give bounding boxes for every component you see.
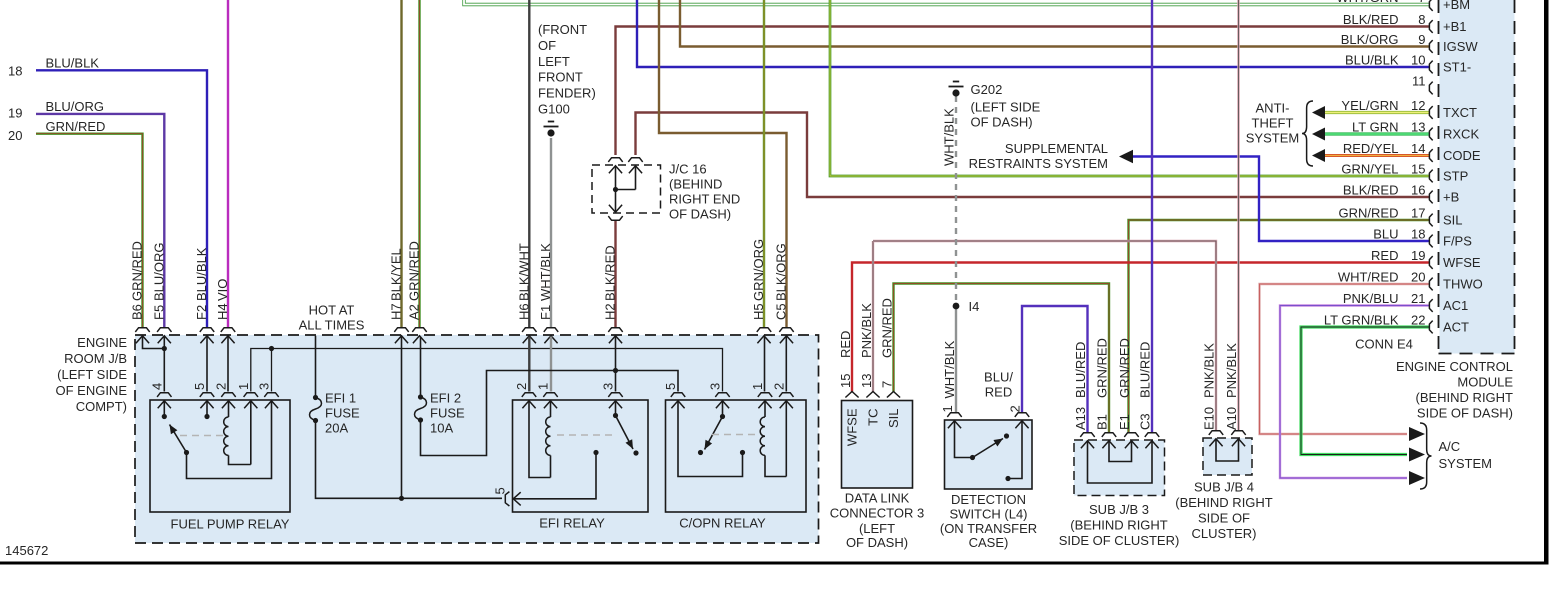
svg-text:RED: RED (1371, 248, 1398, 263)
svg-text:GRN/RED: GRN/RED (46, 119, 106, 134)
svg-text:16: 16 (1411, 183, 1425, 198)
svg-text:ENGINE: ENGINE (77, 335, 127, 350)
svg-text:BLK/RED: BLK/RED (1343, 183, 1399, 198)
svg-text:BLK/RED: BLK/RED (1343, 12, 1399, 27)
svg-text:OF DASH): OF DASH) (846, 535, 908, 550)
svg-text:I4: I4 (969, 299, 980, 314)
svg-text:+B1: +B1 (1443, 19, 1467, 34)
svg-text:11: 11 (1412, 74, 1426, 89)
svg-text:G100: G100 (538, 102, 570, 117)
svg-text:2: 2 (1008, 405, 1023, 412)
svg-text:COMPT): COMPT) (76, 399, 127, 414)
svg-text:SIDE OF DASH): SIDE OF DASH) (1417, 406, 1513, 421)
svg-text:E1: E1 (1117, 414, 1132, 430)
svg-text:ROOM J/B: ROOM J/B (64, 351, 127, 366)
svg-text:GRN/RED: GRN/RED (407, 241, 422, 301)
svg-text:A13: A13 (1073, 407, 1088, 430)
svg-text:2: 2 (514, 383, 529, 390)
svg-text:1: 1 (750, 383, 765, 390)
svg-text:17: 17 (1411, 206, 1425, 221)
svg-text:BLU/: BLU/ (984, 370, 1013, 385)
svg-text:GRN/RED: GRN/RED (1095, 338, 1110, 398)
svg-text:1: 1 (236, 383, 251, 390)
svg-text:(LEFT SIDE: (LEFT SIDE (971, 100, 1041, 115)
svg-text:FRONT: FRONT (538, 70, 583, 85)
svg-text:BLK/ORG: BLK/ORG (774, 243, 789, 301)
svg-text:G202: G202 (971, 82, 1003, 97)
svg-text:LEFT: LEFT (538, 54, 570, 69)
svg-text:(BEHIND RIGHT: (BEHIND RIGHT (1175, 495, 1273, 510)
svg-text:TXCT: TXCT (1443, 105, 1477, 120)
svg-text:ANTI-: ANTI- (1256, 101, 1290, 116)
svg-text:STP: STP (1443, 169, 1468, 184)
svg-text:7: 7 (880, 381, 895, 388)
svg-text:9: 9 (1418, 32, 1425, 47)
svg-text:RXCK: RXCK (1443, 127, 1479, 142)
svg-text:15: 15 (1411, 162, 1425, 177)
svg-text:RED/YEL: RED/YEL (1343, 141, 1399, 156)
svg-text:F/PS: F/PS (1443, 234, 1472, 249)
svg-text:CLUSTER): CLUSTER) (1191, 526, 1256, 541)
svg-text:WFSE: WFSE (845, 408, 860, 446)
svg-text:OF DASH): OF DASH) (971, 115, 1033, 130)
svg-text:RIGHT END: RIGHT END (669, 192, 740, 207)
svg-text:PNK/BLK: PNK/BLK (1202, 343, 1217, 398)
svg-text:GRN/RED: GRN/RED (1339, 206, 1399, 221)
svg-text:22: 22 (1411, 313, 1425, 328)
svg-text:THWO: THWO (1443, 277, 1483, 292)
svg-text:ENGINE CONTROL: ENGINE CONTROL (1396, 359, 1513, 374)
svg-text:TC: TC (866, 409, 881, 426)
svg-text:+B: +B (1443, 190, 1459, 205)
svg-text:C5: C5 (774, 303, 789, 320)
svg-text:OF: OF (538, 38, 556, 53)
svg-text:SIDE OF CLUSTER): SIDE OF CLUSTER) (1059, 533, 1180, 548)
svg-text:J/C 16: J/C 16 (669, 162, 707, 177)
svg-text:19: 19 (1411, 248, 1425, 263)
svg-text:GRN/ORG: GRN/ORG (751, 239, 766, 301)
svg-text:EFI 2: EFI 2 (430, 391, 461, 406)
svg-text:THEFT: THEFT (1252, 116, 1294, 131)
svg-text:BLU/BLK: BLU/BLK (46, 56, 100, 71)
svg-text:13: 13 (1411, 120, 1425, 135)
svg-text:PNK/BLK: PNK/BLK (1224, 343, 1239, 398)
svg-text:145672: 145672 (5, 543, 48, 558)
svg-text:BLK/ORG: BLK/ORG (1341, 32, 1399, 47)
svg-text:12: 12 (1411, 98, 1425, 113)
svg-text:WHT/RED: WHT/RED (1338, 270, 1399, 285)
svg-text:FUSE: FUSE (325, 406, 360, 421)
svg-text:21: 21 (1411, 291, 1425, 306)
svg-text:ACT: ACT (1443, 320, 1469, 335)
svg-text:14: 14 (1411, 141, 1425, 156)
svg-text:AC1: AC1 (1443, 298, 1468, 313)
svg-text:(LEFT SIDE: (LEFT SIDE (57, 367, 127, 382)
svg-text:B1: B1 (1095, 414, 1110, 430)
svg-text:H5: H5 (751, 303, 766, 320)
svg-text:B6: B6 (130, 304, 145, 320)
svg-text:18: 18 (1411, 227, 1425, 242)
svg-text:20A: 20A (325, 421, 348, 436)
svg-text:20: 20 (8, 128, 22, 143)
svg-text:2: 2 (214, 383, 229, 390)
svg-text:BLU/ORG: BLU/ORG (151, 242, 166, 301)
svg-text:C/OPN RELAY: C/OPN RELAY (679, 516, 766, 531)
svg-text:(BEHIND RIGHT: (BEHIND RIGHT (1070, 518, 1168, 533)
svg-text:H2: H2 (603, 303, 618, 320)
svg-text:SWITCH (L4): SWITCH (L4) (950, 507, 1028, 522)
svg-text:5: 5 (663, 383, 678, 390)
svg-text:H6: H6 (516, 303, 531, 320)
svg-text:HOT AT: HOT AT (309, 303, 355, 318)
svg-text:SUB J/B 3: SUB J/B 3 (1089, 502, 1149, 517)
svg-text:LT GRN/BLK: LT GRN/BLK (1324, 313, 1399, 328)
svg-text:19: 19 (8, 106, 22, 121)
svg-text:(ON TRANSFER: (ON TRANSFER (940, 521, 1037, 536)
svg-text:GRN/RED: GRN/RED (130, 241, 145, 301)
svg-text:EFI RELAY: EFI RELAY (539, 516, 605, 531)
svg-text:(BEHIND: (BEHIND (669, 177, 722, 192)
svg-text:(FRONT: (FRONT (538, 22, 587, 37)
svg-text:BLK/WHT: BLK/WHT (516, 243, 531, 301)
svg-text:F2: F2 (194, 305, 209, 320)
svg-text:SIDE OF: SIDE OF (1198, 511, 1250, 526)
svg-text:CONNECTOR 3: CONNECTOR 3 (830, 506, 924, 521)
svg-text:20: 20 (1411, 270, 1425, 285)
svg-text:BLU/ORG: BLU/ORG (46, 99, 105, 114)
svg-text:BLU/RED: BLU/RED (1073, 342, 1088, 398)
svg-text:MODULE: MODULE (1457, 375, 1513, 390)
svg-text:13: 13 (859, 374, 874, 388)
svg-text:CONN E4: CONN E4 (1355, 337, 1413, 352)
svg-text:BLU/BLK: BLU/BLK (1345, 53, 1399, 68)
svg-text:LT GRN: LT GRN (1352, 120, 1398, 135)
svg-text:WHT/BLK: WHT/BLK (942, 108, 957, 166)
svg-text:FUEL PUMP RELAY: FUEL PUMP RELAY (171, 517, 290, 532)
svg-text:C3: C3 (1138, 413, 1153, 430)
svg-text:BLU: BLU (1373, 227, 1398, 242)
svg-text:SIL: SIL (886, 409, 901, 429)
svg-text:F5: F5 (151, 305, 166, 320)
svg-text:7: 7 (1418, 0, 1425, 5)
svg-text:ALL TIMES: ALL TIMES (299, 318, 365, 333)
svg-text:FENDER): FENDER) (538, 86, 596, 101)
svg-text:WHT/GRN: WHT/GRN (1336, 0, 1398, 5)
svg-text:WHT/BLK: WHT/BLK (942, 340, 957, 398)
svg-text:2: 2 (771, 383, 786, 390)
svg-text:3: 3 (708, 383, 723, 390)
svg-text:RESTRAINTS SYSTEM: RESTRAINTS SYSTEM (969, 156, 1108, 171)
svg-text:DETECTION: DETECTION (951, 492, 1026, 507)
svg-text:A10: A10 (1224, 407, 1239, 430)
svg-text:ST1-: ST1- (1443, 60, 1471, 75)
svg-text:GRN/RED: GRN/RED (1117, 338, 1132, 398)
svg-text:+BM: +BM (1443, 0, 1470, 12)
svg-text:4: 4 (149, 383, 164, 390)
svg-text:IGSW: IGSW (1443, 39, 1478, 54)
svg-text:5: 5 (192, 383, 207, 390)
svg-text:CODE: CODE (1443, 148, 1481, 163)
svg-text:(LEFT: (LEFT (859, 521, 895, 536)
svg-text:RED: RED (985, 385, 1012, 400)
svg-text:SUB J/B 4: SUB J/B 4 (1194, 480, 1254, 495)
svg-text:GRN/YEL: GRN/YEL (1341, 162, 1398, 177)
svg-text:SYSTEM: SYSTEM (1246, 131, 1299, 146)
svg-text:WHT/BLK: WHT/BLK (538, 243, 553, 301)
svg-text:10A: 10A (430, 421, 453, 436)
svg-text:H7: H7 (389, 303, 404, 320)
svg-text:OF DASH): OF DASH) (669, 207, 731, 222)
svg-text:5: 5 (493, 487, 508, 494)
svg-text:GRN/RED: GRN/RED (880, 298, 895, 358)
svg-text:SUPPLEMENTAL: SUPPLEMENTAL (1005, 141, 1108, 156)
svg-text:1: 1 (536, 383, 551, 390)
svg-text:3: 3 (601, 383, 616, 390)
svg-text:18: 18 (8, 64, 22, 79)
svg-text:(BEHIND RIGHT: (BEHIND RIGHT (1416, 390, 1514, 405)
svg-text:PNK/BLK: PNK/BLK (859, 303, 874, 358)
svg-text:BLK/YEL: BLK/YEL (389, 248, 404, 301)
svg-text:10: 10 (1411, 53, 1425, 68)
svg-text:DATA LINK: DATA LINK (845, 491, 910, 506)
svg-text:3: 3 (257, 383, 272, 390)
svg-text:H4: H4 (215, 303, 230, 320)
svg-text:CASE): CASE) (969, 535, 1009, 550)
svg-text:WFSE: WFSE (1443, 255, 1481, 270)
svg-text:BLU/RED: BLU/RED (1138, 342, 1153, 398)
svg-text:1: 1 (940, 405, 955, 412)
svg-text:RED: RED (838, 331, 853, 358)
svg-text:8: 8 (1418, 12, 1425, 27)
svg-text:BLK/RED: BLK/RED (603, 245, 618, 301)
svg-text:YEL/GRN: YEL/GRN (1341, 98, 1398, 113)
svg-text:SIL: SIL (1443, 213, 1463, 228)
svg-text:SYSTEM: SYSTEM (1439, 456, 1492, 471)
svg-text:A/C: A/C (1439, 439, 1461, 454)
svg-text:BLU/BLK: BLU/BLK (194, 247, 209, 301)
svg-text:F1: F1 (538, 305, 553, 320)
svg-text:VIO: VIO (215, 279, 230, 301)
svg-text:PNK/BLU: PNK/BLU (1343, 291, 1399, 306)
svg-text:FUSE: FUSE (430, 406, 465, 421)
svg-text:A2: A2 (407, 304, 422, 320)
svg-text:OF ENGINE: OF ENGINE (55, 383, 127, 398)
svg-text:15: 15 (838, 374, 853, 388)
svg-text:EFI 1: EFI 1 (325, 391, 356, 406)
svg-text:E10: E10 (1202, 407, 1217, 430)
